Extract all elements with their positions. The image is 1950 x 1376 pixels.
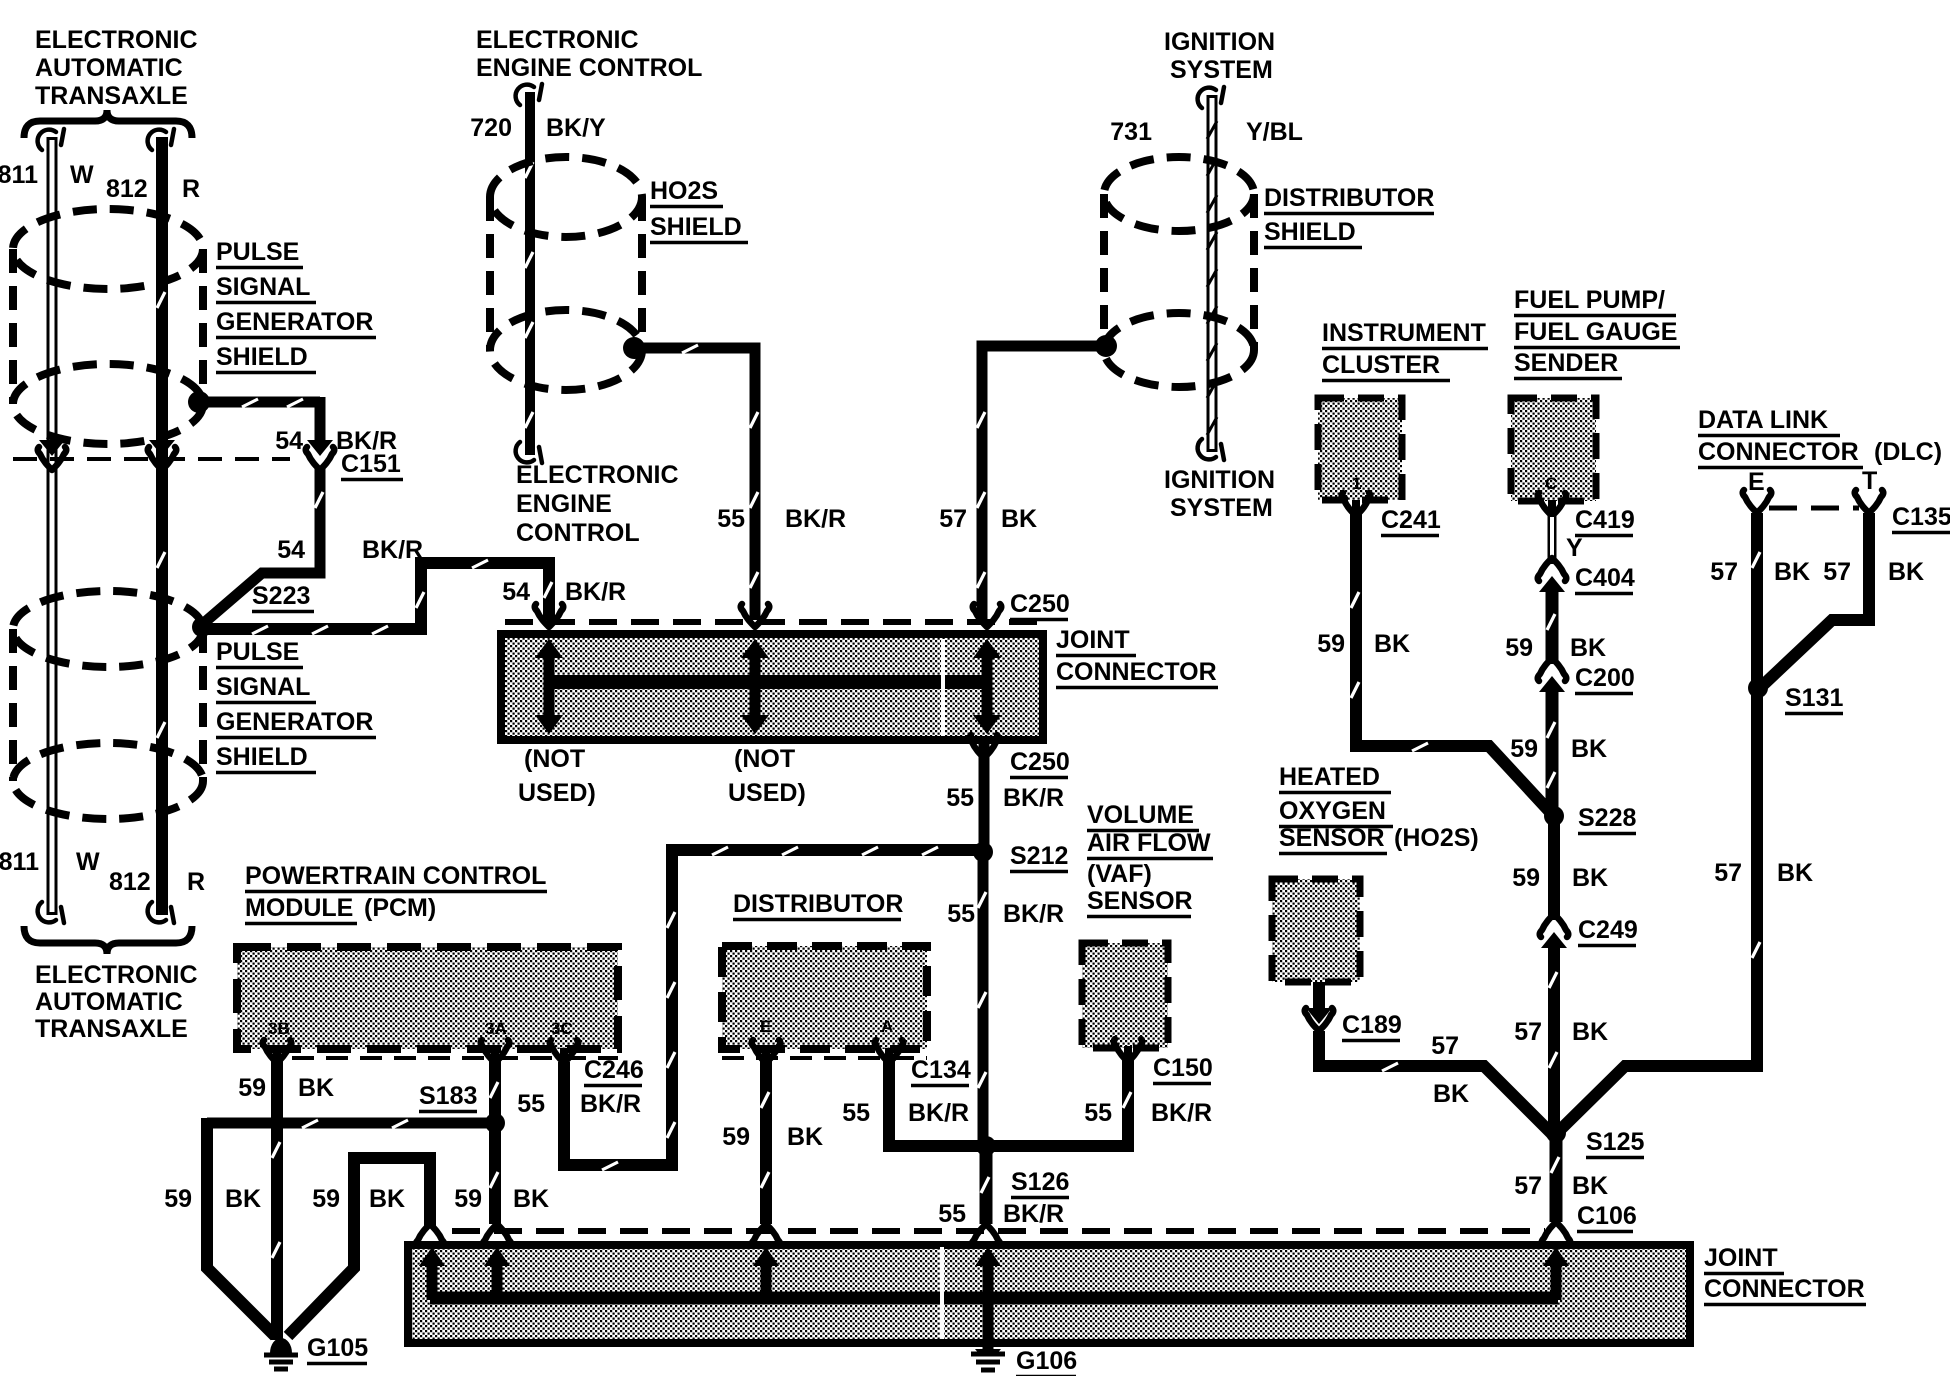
svg-text:BK: BK	[1572, 864, 1608, 892]
svg-text:59: 59	[722, 1123, 750, 1151]
wire 59 BK C404 to C200	[1546, 588, 1559, 664]
svg-text:S183: S183	[419, 1082, 477, 1110]
connector line C151 (dashed)	[13, 457, 290, 461]
wire 55 BK/R to joint connector	[634, 348, 755, 620]
svg-text:54: 54	[502, 578, 530, 606]
svg-text:DISTRIBUTOR: DISTRIBUTOR	[733, 890, 903, 918]
connector C200 in-line	[1538, 658, 1567, 681]
svg-text:55: 55	[1084, 1099, 1112, 1127]
svg-text:BK: BK	[1571, 735, 1607, 763]
svg-text:1: 1	[1352, 474, 1361, 493]
svg-text:BK: BK	[1001, 505, 1037, 533]
svg-text:S212: S212	[1010, 842, 1068, 870]
connector C151 in-line (arrow + cup)	[307, 440, 333, 456]
bus arrows	[544, 654, 555, 718]
brace top	[24, 110, 192, 138]
svg-text:54: 54	[277, 536, 305, 564]
svg-text:SHIELD: SHIELD	[216, 743, 308, 771]
joint connector box (upper)	[501, 634, 1043, 740]
connector line C134 (dashed)	[722, 1056, 927, 1060]
bus bar	[553, 675, 988, 689]
svg-text:BK: BK	[1433, 1080, 1469, 1108]
svg-text:T: T	[1862, 467, 1877, 495]
wire 811 W (shield drain, double line)	[47, 137, 58, 915]
svg-text:57: 57	[1514, 1172, 1542, 1200]
splice S228	[1544, 806, 1564, 826]
svg-text:3B: 3B	[268, 1019, 290, 1038]
svg-text:IGNITION: IGNITION	[1164, 466, 1275, 494]
svg-text:57: 57	[1823, 558, 1851, 586]
svg-text:59: 59	[1510, 735, 1538, 763]
svg-text:57: 57	[1710, 558, 1738, 586]
pin terminals at C246	[273, 1048, 281, 1063]
svg-text:CONNECTOR: CONNECTOR	[1704, 1275, 1865, 1303]
pulse signal generator shield 1 (cylinder)	[13, 364, 203, 444]
wire 57 BK to joint connector	[982, 346, 1106, 620]
svg-text:55: 55	[947, 900, 975, 928]
wire 54 BK/R from shield 1 to C151	[199, 397, 320, 408]
svg-text:811: 811	[0, 848, 39, 876]
svg-text:SENSOR: SENSOR	[1279, 824, 1385, 852]
svg-text:S228: S228	[1578, 804, 1636, 832]
wire from left leg to S183	[207, 1118, 495, 1129]
svg-text:BK: BK	[1572, 1018, 1608, 1046]
svg-text:SHIELD: SHIELD	[650, 213, 742, 241]
connector C189 in-line	[1306, 1008, 1332, 1024]
splice S223	[192, 617, 212, 637]
svg-text:SIGNAL: SIGNAL	[216, 673, 310, 701]
svg-text:BK/R: BK/R	[362, 536, 423, 564]
splice S125	[1546, 1123, 1566, 1143]
svg-text:BK: BK	[369, 1185, 405, 1213]
svg-text:C135: C135	[1892, 503, 1950, 531]
middle wire 59 BK joint connector to G105	[288, 1158, 430, 1336]
svg-text:R: R	[187, 868, 205, 896]
svg-text:TRANSAXLE: TRANSAXLE	[35, 82, 188, 110]
811/812 pass C151 connector	[39, 440, 65, 456]
svg-text:BK: BK	[1570, 634, 1606, 662]
svg-text:812: 812	[109, 868, 151, 896]
svg-text:AUTOMATIC: AUTOMATIC	[35, 988, 183, 1016]
svg-text:CLUSTER: CLUSTER	[1322, 351, 1440, 379]
connector C249 in-line	[1540, 914, 1569, 937]
svg-text:ENGINE: ENGINE	[516, 490, 612, 518]
svg-text:BK: BK	[1777, 859, 1813, 887]
wire 57 BK C249 to S125	[1548, 944, 1560, 1132]
svg-text:59: 59	[312, 1185, 340, 1213]
svg-text:FUEL GAUGE: FUEL GAUGE	[1514, 318, 1677, 346]
svg-text:ELECTRONIC: ELECTRONIC	[476, 26, 639, 54]
HO2S box	[1272, 879, 1360, 982]
svg-text:C246: C246	[584, 1056, 644, 1084]
wire 59 BK from PCM 3B to G105	[271, 1060, 283, 1340]
svg-text:ELECTRONIC: ELECTRONIC	[35, 26, 198, 54]
svg-text:S125: S125	[1586, 1128, 1644, 1156]
connector C404 in-line	[1538, 558, 1567, 581]
connector line C246 (dashed)	[292, 1056, 618, 1060]
svg-text:INSTRUMENT: INSTRUMENT	[1322, 319, 1486, 347]
connector C250 (bottom)	[979, 744, 990, 850]
svg-text:C404: C404	[1575, 564, 1635, 592]
svg-text:MODULE: MODULE	[245, 894, 353, 922]
svg-text:811: 811	[0, 161, 38, 189]
node on shield 1	[188, 391, 210, 413]
svg-text:BK: BK	[225, 1185, 261, 1213]
svg-text:VOLUME: VOLUME	[1087, 801, 1194, 829]
svg-text:W: W	[76, 848, 100, 876]
svg-text:812: 812	[106, 175, 148, 203]
svg-text:BK: BK	[298, 1074, 334, 1102]
wire 55 BK/R long loop S212 to PCM 3C	[564, 850, 977, 1165]
svg-text:C249: C249	[1578, 916, 1638, 944]
svg-text:(DLC): (DLC)	[1874, 438, 1942, 466]
wire 720 BK/Y	[525, 92, 535, 455]
splice S131	[1748, 678, 1768, 698]
svg-text:C189: C189	[1342, 1011, 1402, 1039]
svg-text:BK/R: BK/R	[785, 505, 846, 533]
joint connector box (lower)	[408, 1245, 1690, 1343]
svg-text:55: 55	[517, 1090, 545, 1118]
wire 59 BK C200 to S228	[1546, 688, 1559, 816]
bus bar (lower)	[430, 1292, 1558, 1305]
node on distributor shield	[1095, 335, 1117, 357]
wire 59 BK from distributor E to joint connector	[760, 1060, 772, 1224]
svg-text:PULSE: PULSE	[216, 238, 299, 266]
svg-text:AIR FLOW: AIR FLOW	[1087, 829, 1211, 857]
svg-text:FUEL PUMP/: FUEL PUMP/	[1514, 286, 1665, 314]
svg-text:SENDER: SENDER	[1514, 349, 1618, 377]
wire 55 BK/R from S212 down to S126	[978, 852, 989, 1146]
svg-text:A: A	[881, 1017, 893, 1036]
pin terminals at C134	[762, 1048, 770, 1063]
svg-text:(PCM): (PCM)	[364, 894, 436, 922]
terminal at C106	[1542, 1222, 1571, 1245]
svg-text:JOINT: JOINT	[1056, 626, 1130, 654]
svg-text:ENGINE CONTROL: ENGINE CONTROL	[476, 54, 702, 82]
svg-text:OXYGEN: OXYGEN	[1279, 797, 1386, 825]
wire 54 BK/R from S223 to joint connector	[202, 563, 549, 629]
svg-text:3C: 3C	[551, 1019, 573, 1038]
svg-text:SHIELD: SHIELD	[216, 343, 308, 371]
svg-text:C419: C419	[1575, 506, 1635, 534]
svg-text:R: R	[182, 175, 200, 203]
svg-text:E: E	[1748, 468, 1765, 496]
svg-text:SHIELD: SHIELD	[1264, 218, 1356, 246]
wire 59 BK S228 to C249	[1548, 816, 1560, 920]
pin terminal C419	[1548, 500, 1556, 516]
svg-text:BK/R: BK/R	[565, 578, 626, 606]
node on HO2S shield	[623, 337, 645, 359]
svg-text:SYSTEM: SYSTEM	[1170, 494, 1273, 522]
svg-text:BK/R: BK/R	[1003, 784, 1064, 812]
wire from HO2S to C189	[1313, 982, 1325, 1012]
svg-text:3A: 3A	[485, 1019, 507, 1038]
svg-text:S131: S131	[1785, 684, 1843, 712]
svg-text:HO2S: HO2S	[650, 177, 718, 205]
svg-text:G106: G106	[1016, 1347, 1077, 1375]
svg-text:CONNECTOR: CONNECTOR	[1056, 658, 1217, 686]
ground G106	[975, 1349, 1001, 1355]
wire 59 BK from cluster to S228	[1356, 514, 1550, 812]
PCM box	[237, 947, 618, 1049]
wire 57 BK from T to S131	[1762, 513, 1869, 686]
svg-text:W: W	[70, 161, 94, 189]
connector line C250 (dashed)	[505, 619, 1044, 625]
svg-text:SIGNAL: SIGNAL	[216, 273, 310, 301]
left wire 59 BK to G105	[207, 1118, 275, 1336]
svg-text:SENSOR: SENSOR	[1087, 887, 1193, 915]
svg-text:59: 59	[1512, 864, 1540, 892]
wire Y (thin) C419 to C404	[1548, 514, 1557, 564]
svg-text:BK: BK	[513, 1185, 549, 1213]
svg-text:BK: BK	[1774, 558, 1810, 586]
wire 59 BK from PCM 3A through S183 to joint connector	[489, 1060, 501, 1224]
splice S212	[973, 842, 993, 862]
svg-text:USED): USED)	[518, 779, 596, 807]
splice S183	[485, 1113, 505, 1133]
svg-text:ELECTRONIC: ELECTRONIC	[35, 961, 198, 989]
wire terminals at C250	[535, 604, 564, 627]
wire to G106 through box	[983, 1298, 994, 1350]
svg-text:BK: BK	[1572, 1172, 1608, 1200]
wire 55 BK/R from distributor A to S126	[889, 1060, 980, 1146]
DLC connector line C135 (dashed)	[1769, 506, 1859, 511]
svg-text:ELECTRONIC: ELECTRONIC	[516, 461, 679, 489]
svg-text:(VAF): (VAF)	[1087, 860, 1152, 888]
svg-text:SYSTEM: SYSTEM	[1170, 56, 1273, 84]
svg-text:S126: S126	[1011, 1168, 1069, 1196]
svg-text:BK/Y: BK/Y	[546, 114, 606, 142]
svg-text:BK: BK	[1374, 630, 1410, 658]
wire 812 R	[156, 137, 168, 915]
connector line C106 (dashed)	[452, 1228, 1545, 1234]
svg-text:C151: C151	[341, 450, 401, 478]
svg-text:Y: Y	[1566, 534, 1583, 562]
svg-text:(HO2S): (HO2S)	[1394, 824, 1479, 852]
svg-text:(NOT: (NOT	[734, 745, 795, 773]
svg-text:GENERATOR: GENERATOR	[216, 308, 373, 336]
svg-text:57: 57	[939, 505, 967, 533]
svg-text:BK/R: BK/R	[1003, 1200, 1064, 1228]
HO2S shield (cylinder)	[490, 310, 642, 390]
svg-text:C134: C134	[911, 1056, 971, 1084]
svg-text:USED): USED)	[728, 779, 806, 807]
svg-text:C: C	[1545, 474, 1557, 493]
svg-text:55: 55	[946, 784, 974, 812]
svg-text:BK/R: BK/R	[908, 1099, 969, 1127]
svg-text:CONNECTOR: CONNECTOR	[1698, 438, 1859, 466]
svg-text:57: 57	[1514, 1018, 1542, 1046]
svg-text:POWERTRAIN CONTROL: POWERTRAIN CONTROL	[245, 862, 546, 890]
svg-text:C250: C250	[1010, 748, 1070, 776]
svg-text:(NOT: (NOT	[524, 745, 585, 773]
svg-text:57: 57	[1714, 859, 1742, 887]
svg-text:BK/R: BK/R	[1151, 1099, 1212, 1127]
distributor shield (cylinder)	[1104, 313, 1254, 387]
svg-text:BK: BK	[1888, 558, 1924, 586]
svg-text:IGNITION: IGNITION	[1164, 28, 1275, 56]
svg-text:DISTRIBUTOR: DISTRIBUTOR	[1264, 184, 1434, 212]
instrument cluster box	[1318, 398, 1402, 500]
wire 55 BK/R from VAF to S126	[992, 1060, 1128, 1146]
svg-text:C106: C106	[1577, 1202, 1637, 1230]
svg-text:59: 59	[238, 1074, 266, 1102]
svg-text:CONTROL: CONTROL	[516, 519, 640, 547]
svg-text:59: 59	[454, 1185, 482, 1213]
pulse signal generator shield 2 (cylinder)	[13, 743, 203, 819]
svg-text:720: 720	[470, 114, 512, 142]
svg-text:55: 55	[717, 505, 745, 533]
pin terminal at C150	[1124, 1046, 1132, 1062]
svg-text:S223: S223	[252, 582, 310, 610]
ground G105	[270, 1338, 292, 1353]
splice S126	[976, 1136, 996, 1156]
svg-text:JOINT: JOINT	[1704, 1244, 1778, 1272]
svg-text:BK/R: BK/R	[1003, 900, 1064, 928]
svg-text:C200: C200	[1575, 664, 1635, 692]
svg-text:G105: G105	[307, 1334, 368, 1362]
svg-text:59: 59	[1505, 634, 1533, 662]
svg-text:GENERATOR: GENERATOR	[216, 708, 373, 736]
svg-text:55: 55	[842, 1099, 870, 1127]
wire 57 BK S125 to C106	[1550, 1133, 1563, 1222]
VAF sensor box	[1082, 943, 1168, 1048]
svg-text:54: 54	[275, 427, 303, 455]
svg-text:59: 59	[1317, 630, 1345, 658]
svg-text:57: 57	[1431, 1032, 1459, 1060]
svg-text:DATA LINK: DATA LINK	[1698, 406, 1828, 434]
svg-text:TRANSAXLE: TRANSAXLE	[35, 1015, 188, 1043]
terminals at C106	[416, 1224, 445, 1247]
svg-text:C241: C241	[1381, 506, 1441, 534]
wire 55 BK/R S126 to joint connector	[980, 1146, 993, 1224]
svg-text:Y/BL: Y/BL	[1246, 118, 1303, 146]
svg-text:PULSE: PULSE	[216, 638, 299, 666]
svg-text:BK/R: BK/R	[580, 1090, 641, 1118]
fuel sender box	[1511, 398, 1596, 501]
svg-text:59: 59	[164, 1185, 192, 1213]
wire 731 Y/BL (shielded)	[1207, 95, 1218, 452]
svg-text:55: 55	[938, 1200, 966, 1228]
pin terminal C241	[1352, 500, 1360, 516]
svg-text:C250: C250	[1010, 590, 1070, 618]
svg-text:731: 731	[1110, 118, 1152, 146]
svg-text:AUTOMATIC: AUTOMATIC	[35, 54, 183, 82]
bus arrows (lower)	[419, 1247, 445, 1300]
distributor box	[722, 946, 927, 1049]
svg-text:HEATED: HEATED	[1279, 763, 1380, 791]
svg-text:E: E	[760, 1017, 771, 1036]
svg-text:C150: C150	[1153, 1054, 1213, 1082]
wire 57 BK C189 to S125	[1319, 1031, 1552, 1134]
wire 57 BK from E through S131 to S125	[1560, 513, 1757, 1130]
svg-text:BK: BK	[787, 1123, 823, 1151]
terminals E and T	[1743, 490, 1772, 513]
brace bottom	[24, 926, 192, 954]
wire 54 diagonal to S223	[205, 562, 320, 622]
